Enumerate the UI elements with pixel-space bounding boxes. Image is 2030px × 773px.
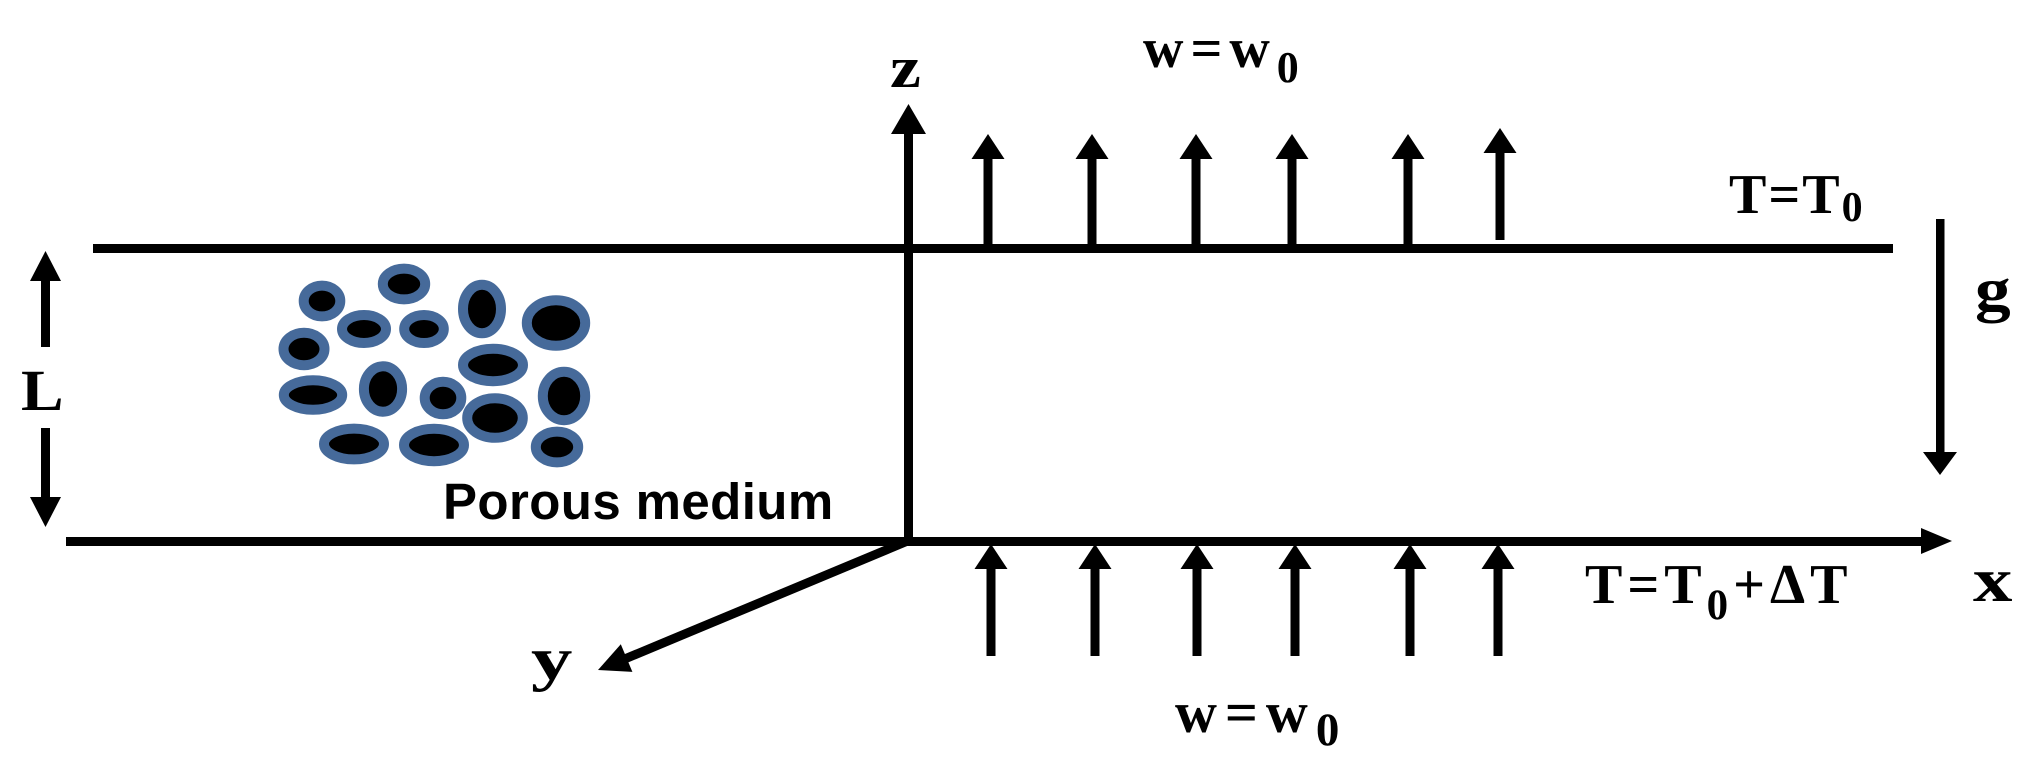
svg-text:Porous medium: Porous medium [443, 473, 834, 530]
svg-text:z: z [890, 35, 921, 99]
svg-text:L: L [21, 360, 64, 424]
svg-text:x: x [1973, 545, 2013, 615]
svg-text:g: g [1975, 257, 2011, 324]
svg-text:y: y [531, 626, 572, 692]
